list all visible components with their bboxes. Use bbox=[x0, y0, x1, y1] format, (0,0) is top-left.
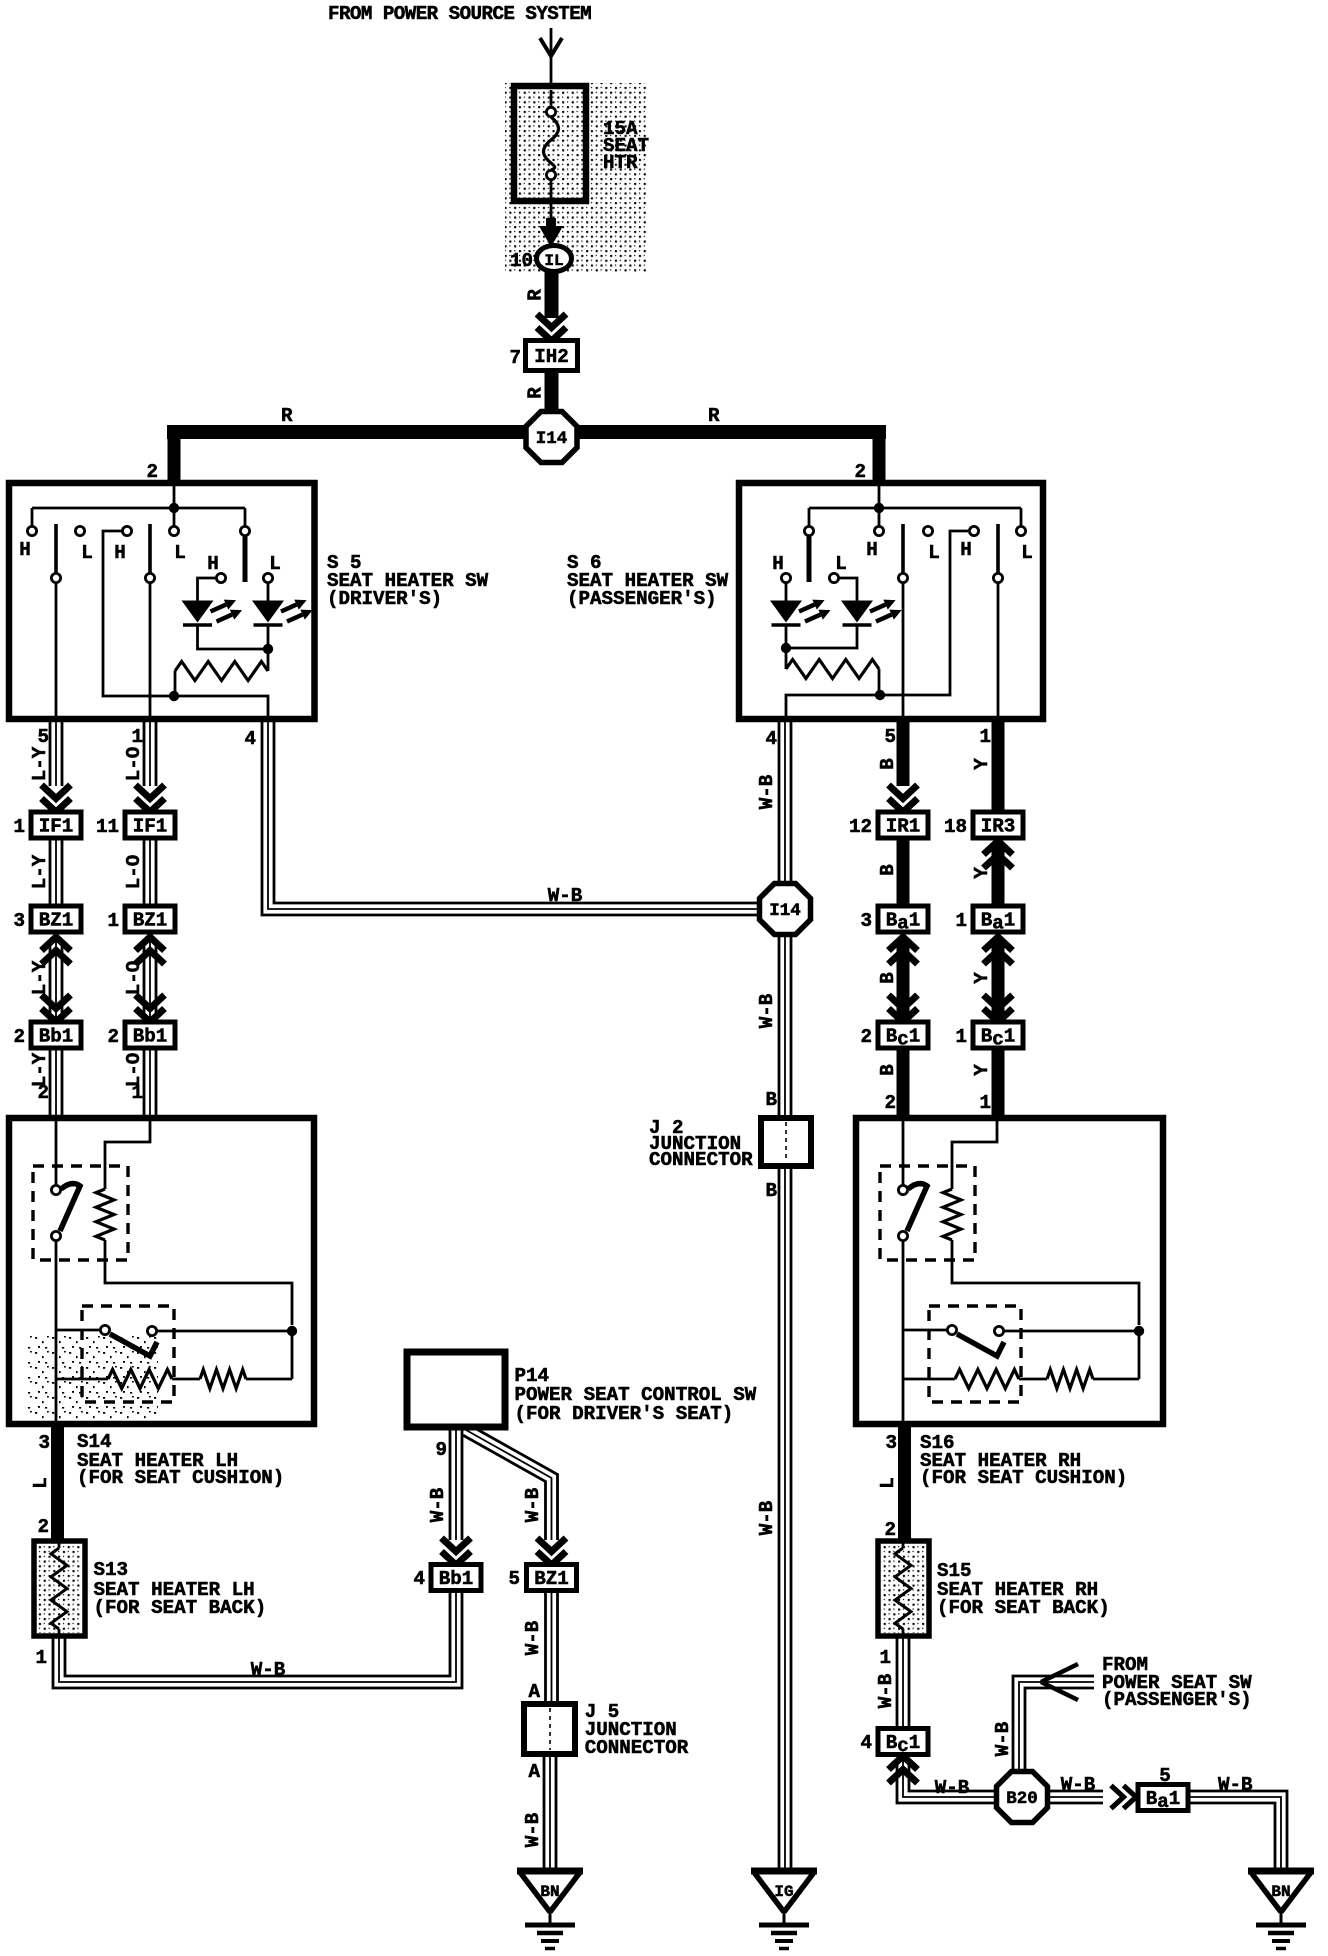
wire W-B BZ1 to J5 bbox=[522, 1590, 558, 1704]
svg-text:IL: IL bbox=[544, 252, 563, 270]
svg-text:4: 4 bbox=[860, 1732, 872, 1754]
S6 contact labels H L H L bbox=[866, 539, 1033, 564]
svg-text:9: 9 bbox=[435, 1439, 447, 1461]
svg-text:W-B: W-B bbox=[522, 1812, 544, 1847]
connector Ba1 pin 1 bbox=[955, 906, 1023, 935]
svg-text:1: 1 bbox=[13, 816, 25, 838]
svg-text:W-B: W-B bbox=[756, 993, 778, 1028]
svg-text:W-B: W-B bbox=[548, 885, 583, 907]
connector IR1 pin 12 bbox=[849, 812, 928, 838]
S5 contact labels H L H L bbox=[19, 539, 186, 564]
svg-text:Bb1: Bb1 bbox=[133, 1026, 168, 1048]
connector BZ1 pin 5 bbox=[508, 1565, 576, 1591]
svg-text:B: B bbox=[765, 1180, 777, 1202]
svg-text:IG: IG bbox=[774, 1883, 793, 1901]
net label FROM POWER SEAT SW bbox=[1102, 1654, 1252, 1711]
svg-text:1: 1 bbox=[131, 1082, 143, 1104]
wire L S16 pin 3 to S15 pin 2 bbox=[877, 1424, 905, 1541]
wire W-B from power seat switch to B20 bbox=[992, 1664, 1094, 1772]
power seat control switch P14 box bbox=[407, 1352, 505, 1427]
svg-text:L: L bbox=[269, 553, 281, 575]
svg-text:L-Y: L-Y bbox=[29, 960, 51, 995]
svg-text:5: 5 bbox=[508, 1568, 520, 1590]
connector IR3 pin 18 bbox=[944, 812, 1023, 838]
junction connector J5 bbox=[524, 1701, 689, 1759]
svg-text:H: H bbox=[19, 539, 31, 561]
S6 indicator LED L bbox=[791, 553, 902, 648]
S5 internal bus from pin 2 bbox=[27, 483, 249, 536]
svg-text:12: 12 bbox=[849, 816, 872, 838]
connector IF1 pin 11 bbox=[96, 812, 175, 838]
svg-text:BZ1: BZ1 bbox=[39, 910, 74, 932]
svg-text:W-B: W-B bbox=[756, 1500, 778, 1535]
svg-text:R: R bbox=[281, 405, 293, 427]
svg-text:HTR: HTR bbox=[603, 152, 638, 174]
wire L-Y Bb1 to S14 pin 2 bbox=[29, 1048, 62, 1118]
svg-text:W-B: W-B bbox=[522, 1620, 544, 1655]
wire L-Y from S5 pin 5 bbox=[29, 719, 71, 812]
S6 resistor bbox=[786, 660, 879, 696]
svg-text:2: 2 bbox=[860, 1026, 872, 1048]
S5 switch blade 1 bbox=[51, 524, 60, 719]
wire L-O BZ1 to Bb1 bbox=[123, 937, 165, 1022]
svg-text:2: 2 bbox=[854, 461, 866, 483]
svg-text:L: L bbox=[30, 1477, 52, 1489]
S5 wire pin4 net bbox=[103, 531, 268, 719]
svg-text:2: 2 bbox=[884, 1519, 896, 1541]
svg-text:18: 18 bbox=[944, 816, 967, 838]
wire B Bc1 to S16 pin 2 bbox=[877, 1048, 903, 1118]
S6 terminal 2 wire bbox=[854, 432, 879, 484]
svg-text:L-O: L-O bbox=[123, 961, 145, 996]
wire W-B from S5 pin 4 to I14 bbox=[244, 719, 759, 915]
svg-text:H: H bbox=[772, 553, 784, 575]
junction connector J2 bbox=[649, 1117, 811, 1171]
wire W-B I14 to J2 bbox=[756, 934, 791, 1118]
S16 label block bbox=[920, 1432, 1127, 1489]
svg-text:W-B: W-B bbox=[1218, 1774, 1253, 1796]
S14 scan noise patch bbox=[28, 1336, 158, 1422]
junction connector I14 (top) bbox=[526, 412, 577, 463]
svg-text:W-B: W-B bbox=[1061, 1774, 1096, 1796]
junction connector B20 bbox=[997, 1772, 1048, 1823]
svg-text:L-O: L-O bbox=[123, 855, 145, 890]
svg-text:R: R bbox=[525, 387, 547, 399]
svg-text:Ba1: Ba1 bbox=[981, 910, 1016, 935]
wire L-Y IF1 to BZ1 bbox=[29, 838, 62, 906]
svg-text:W-B: W-B bbox=[992, 1721, 1014, 1756]
S5 terminal 2 wire bbox=[146, 432, 174, 484]
connector IH2 pin 7 bbox=[509, 341, 577, 371]
svg-text:4: 4 bbox=[765, 728, 777, 750]
S16 internal thermostat and heater elements bbox=[880, 1118, 1144, 1424]
svg-text:(FOR SEAT BACK): (FOR SEAT BACK) bbox=[94, 1597, 267, 1619]
svg-text:5: 5 bbox=[37, 726, 49, 748]
svg-text:L: L bbox=[81, 542, 93, 564]
svg-text:IR1: IR1 bbox=[886, 816, 921, 838]
svg-text:A: A bbox=[528, 1761, 540, 1783]
svg-text:Y: Y bbox=[971, 758, 993, 770]
S5 switch blade stub right bbox=[243, 535, 248, 582]
ground BN (right) bbox=[1248, 1871, 1314, 1949]
switch S5 box bbox=[9, 483, 315, 719]
svg-text:7: 7 bbox=[509, 347, 521, 369]
arrow into connector IL bbox=[539, 201, 563, 247]
S6 switch blade 2 bbox=[993, 524, 1002, 719]
svg-text:3: 3 bbox=[860, 910, 872, 932]
svg-text:2: 2 bbox=[146, 461, 158, 483]
wire Y Bc1 to S16 pin 1 bbox=[971, 1048, 998, 1118]
svg-text:W-B: W-B bbox=[756, 774, 778, 809]
connector Bb1 pin 2 bbox=[13, 1022, 81, 1048]
svg-text:B: B bbox=[877, 758, 899, 770]
svg-text:(FOR DRIVER'S SEAT): (FOR DRIVER'S SEAT) bbox=[515, 1403, 734, 1425]
connector IF1 pin 1 bbox=[13, 812, 81, 838]
svg-text:3: 3 bbox=[13, 910, 25, 932]
svg-text:1: 1 bbox=[955, 1026, 967, 1048]
S6 indicator LED H bbox=[770, 553, 831, 648]
wire L-O IF1 to BZ1 bbox=[123, 838, 156, 906]
svg-text:I14: I14 bbox=[536, 429, 568, 449]
svg-text:H: H bbox=[114, 542, 126, 564]
svg-text:R: R bbox=[525, 289, 547, 301]
connector IL pin 10 bbox=[510, 246, 572, 273]
connector Bc1 pin 1b bbox=[955, 1022, 1023, 1051]
svg-text:FROM POWER SOURCE SYSTEM: FROM POWER SOURCE SYSTEM bbox=[328, 3, 591, 25]
svg-text:1: 1 bbox=[107, 910, 119, 932]
svg-text:(FOR SEAT CUSHION): (FOR SEAT CUSHION) bbox=[920, 1467, 1127, 1489]
connector Bb1 pin 4 bbox=[413, 1565, 481, 1591]
wire Y Ba1 to Bc1 bbox=[971, 937, 1013, 1022]
svg-text:2: 2 bbox=[107, 1026, 119, 1048]
svg-text:BN: BN bbox=[1271, 1883, 1290, 1901]
svg-text:L-Y: L-Y bbox=[29, 746, 51, 781]
svg-text:L: L bbox=[928, 542, 940, 564]
S5 resistor bbox=[175, 662, 268, 697]
wire from power source system bbox=[540, 28, 562, 90]
S6 switch blade 1 bbox=[898, 524, 907, 719]
ground BN (left) bbox=[517, 1871, 583, 1949]
junction connector I14 (middle) bbox=[760, 884, 811, 935]
svg-text:Bc1: Bc1 bbox=[886, 1026, 921, 1051]
svg-text:Bb1: Bb1 bbox=[39, 1026, 74, 1048]
S6 LED junction node bbox=[781, 643, 791, 669]
S6 internal bus from pin 2 bbox=[804, 483, 1025, 536]
svg-text:(FOR SEAT BACK): (FOR SEAT BACK) bbox=[937, 1597, 1110, 1619]
svg-text:B: B bbox=[877, 1064, 899, 1076]
wire L-O from S5 pin 1 bbox=[123, 719, 165, 812]
switch S6 box bbox=[739, 483, 1043, 719]
fuse 15A SEAT HTR bbox=[514, 86, 649, 201]
connector Ba1 pin 3 bbox=[860, 906, 928, 935]
svg-text:1: 1 bbox=[131, 726, 143, 748]
svg-text:1: 1 bbox=[979, 1092, 991, 1114]
wire B Ba1 to Bc1 bbox=[877, 937, 918, 1022]
connector Bb1 pin 2b bbox=[107, 1022, 175, 1048]
svg-text:IF1: IF1 bbox=[39, 816, 74, 838]
ground IG bbox=[751, 1871, 817, 1949]
P14 label block bbox=[515, 1365, 757, 1425]
wire W-B J5 to BN ground bbox=[522, 1754, 556, 1868]
wire L-Y BZ1 to Bb1 bbox=[29, 937, 71, 1022]
connector Ba1 pin 5 bbox=[1138, 1785, 1188, 1814]
svg-text:B: B bbox=[765, 1089, 777, 1111]
S5 switch blade 2 bbox=[145, 524, 154, 719]
S5 indicator LED L bbox=[252, 553, 313, 649]
svg-text:W-B: W-B bbox=[875, 1673, 897, 1708]
svg-text:2: 2 bbox=[13, 1026, 25, 1048]
svg-text:2: 2 bbox=[884, 1092, 896, 1114]
svg-text:Bc1: Bc1 bbox=[981, 1026, 1016, 1051]
svg-text:L-Y: L-Y bbox=[29, 854, 51, 889]
svg-text:CONNECTOR: CONNECTOR bbox=[649, 1149, 753, 1171]
wire R from IH2 to I14 bbox=[525, 371, 552, 413]
svg-text:3: 3 bbox=[38, 1432, 50, 1454]
wire W-B S15 pin 1 to Bc1 pin 4 bbox=[875, 1636, 909, 1731]
svg-text:(FOR SEAT CUSHION): (FOR SEAT CUSHION) bbox=[77, 1467, 284, 1489]
S14 label block bbox=[77, 1431, 284, 1489]
svg-text:Ba1: Ba1 bbox=[1146, 1788, 1181, 1813]
wire L S14 pin 3 to S13 pin 2 bbox=[30, 1424, 58, 1541]
svg-text:CONNECTOR: CONNECTOR bbox=[585, 1737, 689, 1759]
svg-text:1: 1 bbox=[955, 910, 967, 932]
svg-text:B: B bbox=[877, 864, 899, 876]
svg-text:11: 11 bbox=[96, 816, 119, 838]
wire Y from S6 pin 1 bbox=[971, 719, 998, 812]
svg-text:BZ1: BZ1 bbox=[133, 910, 168, 932]
heater S13 (seat back) bbox=[34, 1541, 85, 1636]
wire W-B B20 to Ba1 pin 5 bbox=[1048, 1765, 1171, 1809]
svg-text:I14: I14 bbox=[769, 901, 801, 921]
wire Y IR3 to Ba1 bbox=[971, 841, 1013, 906]
svg-text:4: 4 bbox=[413, 1568, 425, 1590]
S13 label block bbox=[94, 1559, 267, 1619]
svg-text:IR3: IR3 bbox=[981, 816, 1016, 838]
svg-text:B: B bbox=[877, 972, 899, 984]
wire L-O Bb1 to S14 pin 1 bbox=[123, 1048, 156, 1118]
S6 wire pin4 net bbox=[786, 531, 969, 719]
svg-text:1: 1 bbox=[35, 1647, 47, 1669]
svg-text:S13: S13 bbox=[94, 1559, 129, 1581]
S5 label block bbox=[327, 552, 489, 610]
svg-text:Y: Y bbox=[971, 1064, 993, 1076]
svg-text:Y: Y bbox=[971, 972, 993, 984]
svg-text:L: L bbox=[174, 542, 186, 564]
S14 internal thermostat and heater elements bbox=[33, 1118, 297, 1424]
svg-text:H: H bbox=[866, 539, 878, 561]
svg-text:L: L bbox=[877, 1477, 899, 1489]
heater S16 box bbox=[856, 1118, 1163, 1424]
svg-text:5: 5 bbox=[884, 726, 896, 748]
stipple halftone region bbox=[505, 83, 648, 273]
heater S14 box bbox=[9, 1118, 314, 1424]
wire B IR1 to Ba1 bbox=[877, 838, 903, 906]
S6 label block bbox=[567, 552, 729, 610]
svg-text:W-B: W-B bbox=[522, 1487, 544, 1522]
svg-text:1: 1 bbox=[979, 726, 991, 748]
svg-text:W-B: W-B bbox=[935, 1777, 970, 1799]
wire W-B J2 to IG ground bbox=[756, 1166, 791, 1868]
heater S15 (seat back) bbox=[878, 1541, 929, 1636]
wire W-B S13 pin 1 to Bb1 pin 4 bbox=[35, 1590, 462, 1688]
svg-text:3: 3 bbox=[885, 1432, 897, 1454]
wire W-B from S6 pin 4 to I14 bbox=[756, 719, 791, 884]
wire B from S6 pin 5 bbox=[877, 719, 918, 812]
svg-text:(DRIVER'S): (DRIVER'S) bbox=[327, 588, 442, 610]
svg-text:L: L bbox=[1021, 542, 1033, 564]
svg-text:2: 2 bbox=[37, 1516, 49, 1538]
svg-text:B20: B20 bbox=[1006, 1789, 1038, 1809]
svg-text:(PASSENGER'S): (PASSENGER'S) bbox=[567, 588, 717, 610]
S5 indicator LED H bbox=[182, 553, 264, 649]
svg-text:BN: BN bbox=[540, 1883, 559, 1901]
svg-text:W-B: W-B bbox=[251, 1659, 286, 1681]
svg-text:4: 4 bbox=[244, 728, 256, 750]
connector BZ1 pin 3 bbox=[13, 906, 81, 932]
svg-text:Y: Y bbox=[971, 867, 993, 879]
wire R from IL to IH2 bbox=[525, 270, 567, 341]
svg-text:1: 1 bbox=[879, 1647, 891, 1669]
S15 label block bbox=[937, 1560, 1110, 1619]
wire W-B P14 to BZ1 bbox=[463, 1425, 566, 1565]
bus wire R bbox=[167, 405, 886, 432]
svg-text:H: H bbox=[207, 553, 219, 575]
wire W-B P14 pin 9 to Bb1 bbox=[427, 1427, 471, 1565]
svg-text:L: L bbox=[835, 553, 847, 575]
svg-text:R: R bbox=[708, 405, 720, 427]
svg-text:W-B: W-B bbox=[427, 1487, 449, 1522]
net label FROM POWER SOURCE SYSTEM bbox=[328, 3, 591, 25]
S5 LED junction node bbox=[263, 644, 273, 671]
svg-text:IF1: IF1 bbox=[133, 816, 168, 838]
svg-text:(PASSENGER'S): (PASSENGER'S) bbox=[1102, 1689, 1252, 1711]
wire W-B Bc1 to B20 bbox=[889, 1756, 997, 1803]
svg-text:10: 10 bbox=[510, 250, 533, 272]
svg-text:A: A bbox=[528, 1681, 540, 1703]
connector Bc1 pin 2 bbox=[860, 1022, 928, 1051]
connector BZ1 pin 1 bbox=[107, 906, 175, 932]
svg-text:IH2: IH2 bbox=[534, 346, 569, 368]
svg-text:H: H bbox=[960, 539, 972, 561]
svg-text:Ba1: Ba1 bbox=[886, 910, 921, 935]
S6 switch blade stub left bbox=[807, 535, 812, 582]
svg-text:BZ1: BZ1 bbox=[534, 1568, 569, 1590]
svg-text:2: 2 bbox=[37, 1082, 49, 1104]
svg-text:Bb1: Bb1 bbox=[439, 1568, 474, 1590]
wire W-B Ba1 to BN ground bbox=[1187, 1774, 1287, 1868]
connector Bc1 pin 4 bbox=[860, 1729, 928, 1758]
svg-text:L-O: L-O bbox=[123, 747, 145, 782]
